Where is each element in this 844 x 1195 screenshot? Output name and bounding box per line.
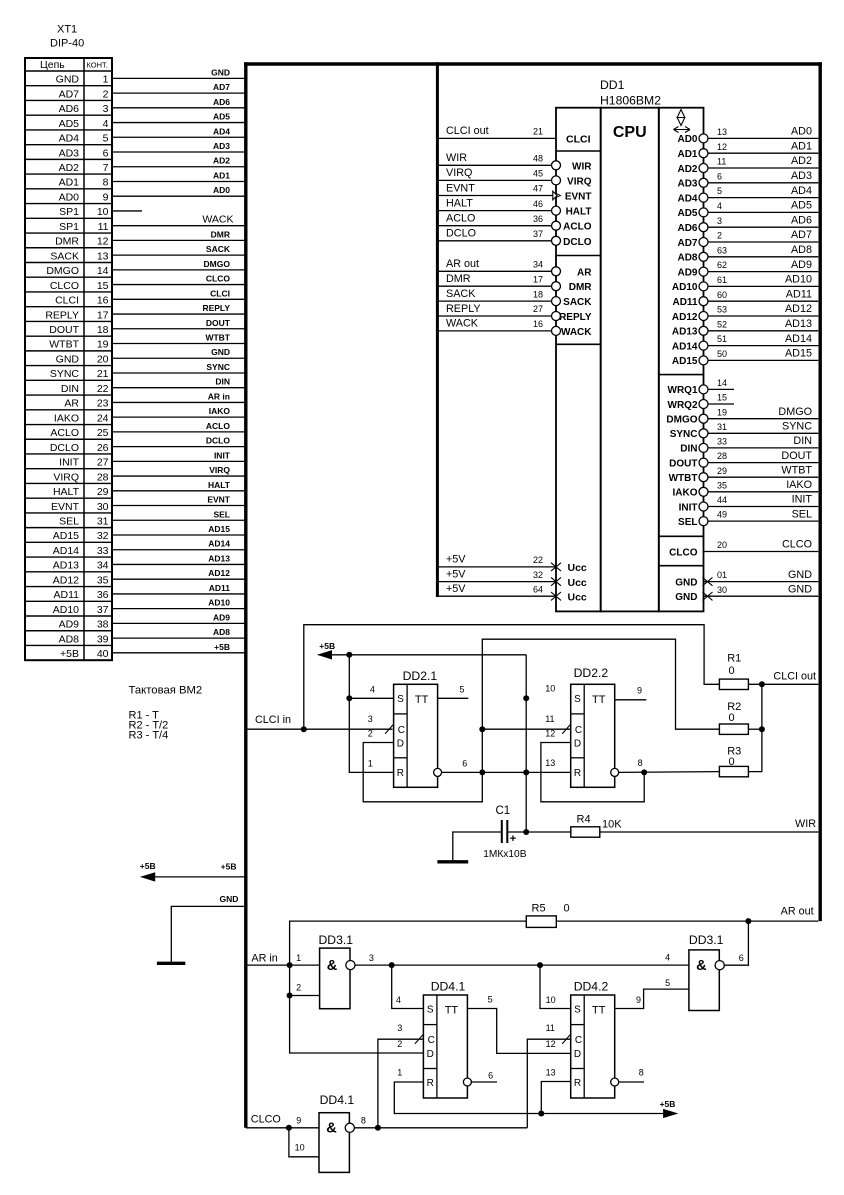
table row line 1: [25, 85, 112, 87]
svg-text:AR in: AR in: [251, 953, 277, 965]
svg-text:01: 01: [717, 570, 727, 580]
wire pin 13 net SACK: [112, 254, 246, 256]
CPU pin WIR (48) wire: [437, 164, 551, 166]
ground symbol left: [157, 962, 185, 965]
wire DD4.2 R input: [541, 1082, 570, 1114]
svg-text:HALT: HALT: [208, 480, 231, 490]
svg-text:DIP-40: DIP-40: [50, 38, 84, 50]
svg-text:+5B: +5B: [319, 641, 335, 651]
CPU pin AD14 (51) wire: [708, 345, 819, 347]
CPU pin AD9 (62) wire: [708, 271, 819, 273]
table row line 20: [25, 365, 112, 367]
svg-text:КОНТ.: КОНТ.: [87, 61, 108, 70]
svg-text:CLCO: CLCO: [669, 547, 698, 558]
svg-text:AD13: AD13: [785, 318, 812, 330]
svg-text:11: 11: [546, 1023, 555, 1033]
resistor R4: [571, 827, 600, 837]
frame inner-left thick line: [436, 62, 439, 597]
svg-text:AD4: AD4: [213, 126, 230, 136]
svg-text:3: 3: [397, 1023, 402, 1033]
node AR out junction: [745, 918, 751, 924]
svg-text:CLCO: CLCO: [206, 274, 230, 284]
svg-text:ACLO: ACLO: [446, 213, 475, 225]
svg-text:11: 11: [98, 221, 109, 233]
svg-text:HALT: HALT: [566, 207, 592, 218]
svg-text:AD12: AD12: [672, 312, 698, 323]
svg-text:+5B: +5B: [660, 1099, 676, 1109]
svg-text:CLCO: CLCO: [251, 1114, 281, 1126]
power +5B arrow right: [664, 1110, 677, 1118]
svg-text:WTBT: WTBT: [669, 473, 698, 484]
svg-text:DMGO: DMGO: [778, 406, 812, 418]
CPU pin CLCI (21) wire: [437, 137, 556, 139]
svg-text:2: 2: [368, 728, 373, 738]
svg-text:TT: TT: [592, 1004, 606, 1016]
svg-text:DMGO: DMGO: [666, 415, 697, 426]
CPU pin GND (01) wire: [704, 581, 819, 583]
and-gate DD4.1 body: [319, 1113, 349, 1173]
svg-text:AD5: AD5: [677, 208, 697, 219]
svg-text:1МКх10В: 1МКх10В: [483, 849, 527, 860]
svg-text:GND: GND: [675, 577, 697, 588]
svg-text:4: 4: [665, 952, 670, 962]
svg-text:AD9: AD9: [791, 259, 812, 271]
svg-text:CLCO: CLCO: [50, 280, 79, 292]
svg-text:ACLO: ACLO: [50, 427, 79, 439]
svg-text:WACK: WACK: [202, 213, 233, 225]
svg-text:CLCI: CLCI: [566, 133, 591, 145]
svg-text:DCLO: DCLO: [446, 228, 476, 240]
wire DD2.2 Q pin9 stub: [615, 699, 647, 701]
svg-text:INIT: INIT: [792, 494, 813, 506]
table row line 38: [25, 630, 112, 632]
svg-text:Тактовая ВМ2: Тактовая ВМ2: [129, 685, 203, 697]
wire pin 34 net AD13: [112, 563, 246, 565]
table row line 35: [25, 586, 112, 588]
svg-text:AD5: AD5: [213, 112, 230, 122]
svg-text:AR out: AR out: [781, 906, 814, 918]
svg-text:R: R: [574, 768, 581, 779]
wire +5B to S and R of DD2.1: [349, 655, 393, 773]
svg-text:SACK: SACK: [206, 244, 231, 254]
svg-text:EVNT: EVNT: [446, 182, 475, 194]
frame top thick line: [244, 62, 822, 65]
svg-text:AD14: AD14: [208, 539, 230, 549]
svg-text:VIRQ: VIRQ: [446, 167, 472, 179]
svg-text:R: R: [427, 1078, 434, 1089]
svg-text:AD10: AD10: [53, 604, 79, 616]
CPU pin SEL (49) wire: [708, 520, 819, 522]
wire CLCI in: [246, 728, 393, 730]
and-gate DD3.1 body: [320, 948, 350, 1009]
svg-text:IAKO: IAKO: [673, 488, 698, 499]
and-gate DD3.1 body: [689, 950, 719, 1011]
svg-text:DD3.1: DD3.1: [689, 933, 724, 947]
svg-text:AD5: AD5: [791, 200, 812, 212]
svg-text:TT: TT: [415, 694, 429, 706]
svg-text:AD7: AD7: [213, 82, 230, 92]
svg-text:DOUT: DOUT: [781, 450, 812, 462]
svg-text:AD4: AD4: [59, 133, 80, 145]
wire pin 37 net AD10: [112, 608, 246, 610]
table row line 15: [25, 291, 112, 293]
svg-text:23: 23: [97, 398, 109, 410]
svg-text:AD8: AD8: [791, 244, 812, 256]
svg-text:EVNT: EVNT: [51, 501, 80, 513]
svg-text:AD1: AD1: [213, 170, 230, 180]
svg-text:AD7: AD7: [677, 238, 697, 249]
svg-text:+: +: [510, 833, 516, 845]
CPU pin WRQ2 (15) wire: [708, 403, 734, 405]
CPU pin AD3 (6) wire: [708, 182, 819, 184]
table row line 32: [25, 541, 112, 543]
svg-text:8: 8: [361, 1116, 366, 1126]
flip-flop DD4.2 C dynamic slash: [562, 1035, 570, 1044]
wire DD2.2 pin8 to R3: [619, 771, 720, 774]
svg-text:AD7: AD7: [59, 88, 80, 100]
wire C1 left to ground: [453, 832, 502, 861]
CPU pin DMR (17) wire: [437, 285, 551, 287]
wire pin 27 net INIT: [112, 460, 246, 462]
table row line 16: [25, 306, 112, 308]
svg-text:21: 21: [533, 127, 543, 137]
svg-text:10: 10: [545, 683, 555, 693]
svg-text:AD15: AD15: [208, 524, 230, 534]
and-gate DD4.1 output bubble: [345, 1123, 354, 1132]
svg-text:AD13: AD13: [208, 553, 230, 563]
CPU pin AD11 (60) wire: [708, 300, 819, 302]
wire pin 30 net EVNT: [112, 505, 246, 507]
CPU pin AD15 (50) wire: [708, 359, 819, 361]
left box divider under CLCI: [556, 150, 601, 152]
svg-text:13: 13: [545, 758, 555, 768]
CPU pin INIT (44) wire: [708, 506, 819, 508]
svg-text:GND: GND: [56, 74, 80, 86]
svg-text:WACK: WACK: [561, 327, 592, 338]
svg-text:AD12: AD12: [53, 574, 79, 586]
svg-text:VIRQ: VIRQ: [53, 471, 79, 483]
wire pin 40 net +5B: [112, 652, 246, 654]
svg-text:D: D: [427, 1049, 434, 1060]
svg-text:31: 31: [97, 516, 109, 528]
wire pin 7 net AD2: [112, 166, 246, 168]
svg-text:&: &: [696, 958, 707, 974]
flip-flop DD4.2 output bubble: [611, 1078, 619, 1086]
svg-text:AD1: AD1: [791, 140, 812, 152]
svg-text:AD0: AD0: [59, 191, 80, 203]
svg-text:30: 30: [717, 585, 727, 595]
wire pin 8 net AD1: [112, 180, 246, 182]
CPU pin AD2 (11) wire: [708, 167, 819, 169]
svg-text:60: 60: [717, 290, 727, 300]
svg-text:12: 12: [717, 142, 727, 152]
wire pin 24 net IAKO: [112, 416, 246, 418]
and-gate DD3.1 output bubble: [346, 961, 355, 970]
svg-text:9: 9: [636, 995, 641, 1005]
CPU pin HALT (46) wire: [437, 210, 551, 212]
svg-text:3: 3: [368, 714, 373, 724]
svg-text:AD14: AD14: [53, 545, 79, 557]
svg-text:9: 9: [103, 191, 109, 203]
svg-text:AD8: AD8: [59, 633, 80, 645]
svg-text:AD4: AD4: [791, 185, 812, 197]
CPU pin Ucc (22) wire: [437, 566, 556, 568]
svg-text:SACK: SACK: [563, 297, 592, 308]
svg-text:CLCI in: CLCI in: [255, 714, 291, 726]
svg-text:1: 1: [397, 1068, 402, 1078]
wire pin 17 net REPLY: [112, 313, 246, 315]
node S1 junction: [346, 695, 352, 701]
svg-text:6: 6: [717, 171, 722, 181]
svg-text:ACLO: ACLO: [563, 222, 592, 233]
CPU pin DMGO (19) wire: [708, 418, 819, 420]
CPU pin DCLO (37) wire: [437, 240, 551, 242]
table row line 30: [25, 512, 112, 514]
svg-text:33: 33: [97, 545, 109, 557]
svg-text:VIRQ: VIRQ: [209, 465, 230, 475]
svg-text:AD1: AD1: [677, 149, 697, 160]
wire pin 31 net SEL: [112, 519, 246, 521]
svg-text:DD2.1: DD2.1: [403, 669, 438, 683]
svg-text:10: 10: [97, 206, 109, 218]
svg-text:S: S: [397, 694, 404, 705]
wire pin 36 net AD11: [112, 593, 246, 595]
svg-text:AD10: AD10: [208, 598, 230, 608]
svg-text:35: 35: [97, 574, 109, 586]
wire pin 32 net AD15: [112, 534, 246, 536]
svg-text:20: 20: [717, 540, 727, 550]
svg-text:5: 5: [717, 186, 722, 196]
svg-text:29: 29: [97, 486, 109, 498]
svg-text:48: 48: [533, 154, 543, 164]
CPU pin WTBT (29) wire: [708, 476, 819, 478]
table row line 4: [25, 129, 112, 131]
wire S1 input: [349, 697, 393, 699]
svg-text:SYNC: SYNC: [782, 421, 812, 433]
node R net junction: [538, 1111, 544, 1117]
flip-flop DD2.2 output bubble: [611, 768, 619, 776]
table row line 11: [25, 232, 112, 234]
CPU pin REPLY (27) wire: [437, 315, 551, 317]
svg-text:DD4.1: DD4.1: [320, 1093, 355, 1107]
svg-text:DCLO: DCLO: [206, 436, 230, 446]
svg-text:AD0: AD0: [791, 126, 812, 138]
svg-text:DOUT: DOUT: [49, 324, 79, 336]
svg-text:WTBT: WTBT: [781, 464, 812, 476]
table row line 29: [25, 497, 112, 499]
svg-text:HALT: HALT: [53, 486, 80, 498]
svg-text:INIT: INIT: [59, 457, 79, 469]
svg-text:35: 35: [717, 480, 727, 490]
chip DD1 right pin box: [659, 108, 704, 612]
wire pin 39 net AD8: [112, 637, 246, 639]
node pin3 junction A: [389, 962, 395, 968]
svg-text:Ucc: Ucc: [568, 577, 587, 589]
svg-text:CLCI out: CLCI out: [773, 671, 816, 683]
right box divider under AD15: [659, 374, 704, 376]
CPU pin VIRQ (45) wire: [437, 179, 551, 181]
CPU pin DOUT (28) wire: [708, 462, 819, 464]
svg-text:0: 0: [729, 756, 735, 768]
node AR in junction 2: [287, 993, 293, 999]
svg-text:3: 3: [103, 103, 109, 115]
svg-text:5: 5: [459, 685, 464, 695]
svg-text:D: D: [574, 1049, 581, 1060]
table row line 2: [25, 99, 112, 101]
svg-text:8: 8: [639, 1068, 644, 1078]
svg-text:SYNC: SYNC: [50, 368, 80, 380]
svg-text:WRQ1: WRQ1: [668, 385, 698, 396]
svg-text:AD11: AD11: [54, 589, 80, 601]
wire DD4.1 Q pin5 to DD4.2 D: [467, 1009, 570, 1054]
svg-text:6: 6: [488, 1070, 493, 1080]
svg-text:22: 22: [533, 555, 543, 565]
svg-text:14: 14: [97, 265, 109, 277]
svg-text:0: 0: [729, 712, 735, 724]
wire pin 15 net CLCO: [112, 284, 246, 286]
svg-text:TT: TT: [592, 694, 606, 706]
svg-text:AD2: AD2: [677, 164, 697, 175]
svg-text:12: 12: [97, 236, 109, 248]
svg-text:50: 50: [717, 349, 727, 359]
svg-text:AD13: AD13: [53, 560, 79, 572]
svg-text:AD1: AD1: [59, 177, 80, 189]
bus vertical thick line: [244, 62, 247, 1128]
wire pin 6 net AD3: [112, 151, 246, 153]
right box divider under SEL: [659, 535, 704, 537]
wire R1 R2 R3 commoning: [748, 684, 762, 771]
svg-text:21: 21: [97, 368, 109, 380]
wire pin 3 net AD6: [112, 107, 246, 109]
svg-text:4: 4: [717, 201, 722, 211]
left box divider under DCLO: [556, 255, 601, 257]
svg-text:AD15: AD15: [672, 356, 698, 367]
svg-text:5: 5: [488, 995, 493, 1005]
node C2 junction: [479, 726, 485, 732]
svg-text:TT: TT: [445, 1004, 459, 1016]
flip-flop DD2.1 output bubble: [434, 768, 442, 776]
svg-text:GND: GND: [211, 347, 230, 357]
svg-text:8: 8: [638, 758, 643, 768]
svg-text:REPLY: REPLY: [45, 309, 79, 321]
svg-text:R5: R5: [532, 903, 546, 915]
wire pin 1 net GND: [112, 77, 246, 79]
svg-text:SYNC: SYNC: [206, 362, 230, 372]
svg-text:+5V: +5V: [446, 554, 466, 566]
svg-text:INIT: INIT: [679, 502, 698, 513]
wire pin 28 net VIRQ: [112, 475, 246, 477]
svg-text:REPLY: REPLY: [202, 303, 230, 313]
wire pin 16 net CLCI: [112, 298, 246, 300]
CPU pin AR (34) wire: [437, 270, 551, 272]
svg-text:CPU: CPU: [613, 124, 647, 141]
svg-text:64: 64: [533, 584, 543, 594]
svg-text:C1: C1: [496, 805, 511, 817]
svg-text:WIR: WIR: [572, 161, 592, 172]
svg-text:S: S: [427, 1004, 434, 1015]
svg-text:AD13: AD13: [672, 327, 698, 338]
svg-text:WRQ2: WRQ2: [668, 400, 698, 411]
svg-text:34: 34: [97, 560, 109, 572]
svg-text:33: 33: [717, 437, 727, 447]
svg-text:AD12: AD12: [208, 568, 230, 578]
svg-text:DIN: DIN: [680, 444, 697, 455]
svg-text:D: D: [397, 738, 404, 749]
svg-text:7: 7: [103, 162, 109, 174]
svg-text:ACLO: ACLO: [206, 421, 230, 431]
right box divider under CLCO: [659, 565, 704, 567]
svg-text:1: 1: [296, 953, 301, 963]
svg-text:18: 18: [97, 324, 109, 336]
svg-text:36: 36: [97, 589, 109, 601]
wire pin 21 net SYNC: [112, 372, 246, 374]
wire pin 23 net AR in: [112, 401, 246, 403]
CPU pin IAKO (35) wire: [708, 491, 819, 493]
svg-text:51: 51: [717, 334, 727, 344]
wire pin 25 net ACLO: [112, 431, 246, 433]
wire pin 33 net AD14: [112, 549, 246, 551]
connector XT1 table frame: [25, 58, 112, 660]
svg-text:8: 8: [103, 177, 109, 189]
svg-text:DCLO: DCLO: [50, 442, 79, 454]
svg-text:34: 34: [533, 260, 543, 270]
svg-text:DIN: DIN: [61, 383, 79, 395]
svg-text:CLCI: CLCI: [210, 288, 230, 298]
svg-text:D: D: [574, 738, 581, 749]
wire pin 19 net WTBT: [112, 343, 246, 345]
svg-text:AR: AR: [577, 267, 592, 278]
svg-text:AD2: AD2: [59, 162, 80, 174]
wire to DD4.2 S: [540, 965, 571, 1008]
table row line 17: [25, 320, 112, 322]
svg-text:29: 29: [717, 466, 727, 476]
svg-text:5: 5: [103, 133, 109, 145]
wire +5B rail DD2: [319, 654, 527, 656]
svg-text:27: 27: [97, 457, 109, 469]
svg-text:2: 2: [397, 1039, 402, 1049]
wire AR out top: [290, 921, 527, 965]
svg-text:AD14: AD14: [785, 333, 812, 345]
svg-text:44: 44: [717, 495, 727, 505]
svg-text:DD3.1: DD3.1: [319, 933, 354, 947]
svg-text:3: 3: [717, 216, 722, 226]
svg-text:2: 2: [103, 88, 109, 100]
table row line 13: [25, 261, 112, 263]
svg-text:37: 37: [97, 604, 109, 616]
svg-text:63: 63: [717, 245, 727, 255]
power +5B stub arrow: [142, 873, 155, 881]
svg-text:38: 38: [97, 619, 109, 631]
svg-text:5: 5: [665, 978, 670, 988]
svg-text:AD9: AD9: [59, 619, 80, 631]
svg-text:SEL: SEL: [213, 509, 230, 519]
table row line 31: [25, 527, 112, 529]
wire CLCO: [246, 1127, 319, 1129]
table row line 19: [25, 350, 112, 352]
svg-text:DMGO: DMGO: [204, 259, 231, 269]
svg-text:AD3: AD3: [213, 141, 230, 151]
svg-text:12: 12: [546, 1039, 556, 1049]
wire AR in: [246, 964, 320, 966]
svg-text:SP1: SP1: [59, 206, 79, 218]
svg-text:DD4.2: DD4.2: [574, 980, 609, 994]
svg-text:WACK: WACK: [446, 318, 479, 330]
wire pin 11 net WACK: [112, 225, 246, 227]
svg-text:AD2: AD2: [213, 156, 230, 166]
svg-text:62: 62: [717, 260, 727, 270]
table row line 24: [25, 424, 112, 426]
svg-text:+5V: +5V: [446, 583, 466, 595]
